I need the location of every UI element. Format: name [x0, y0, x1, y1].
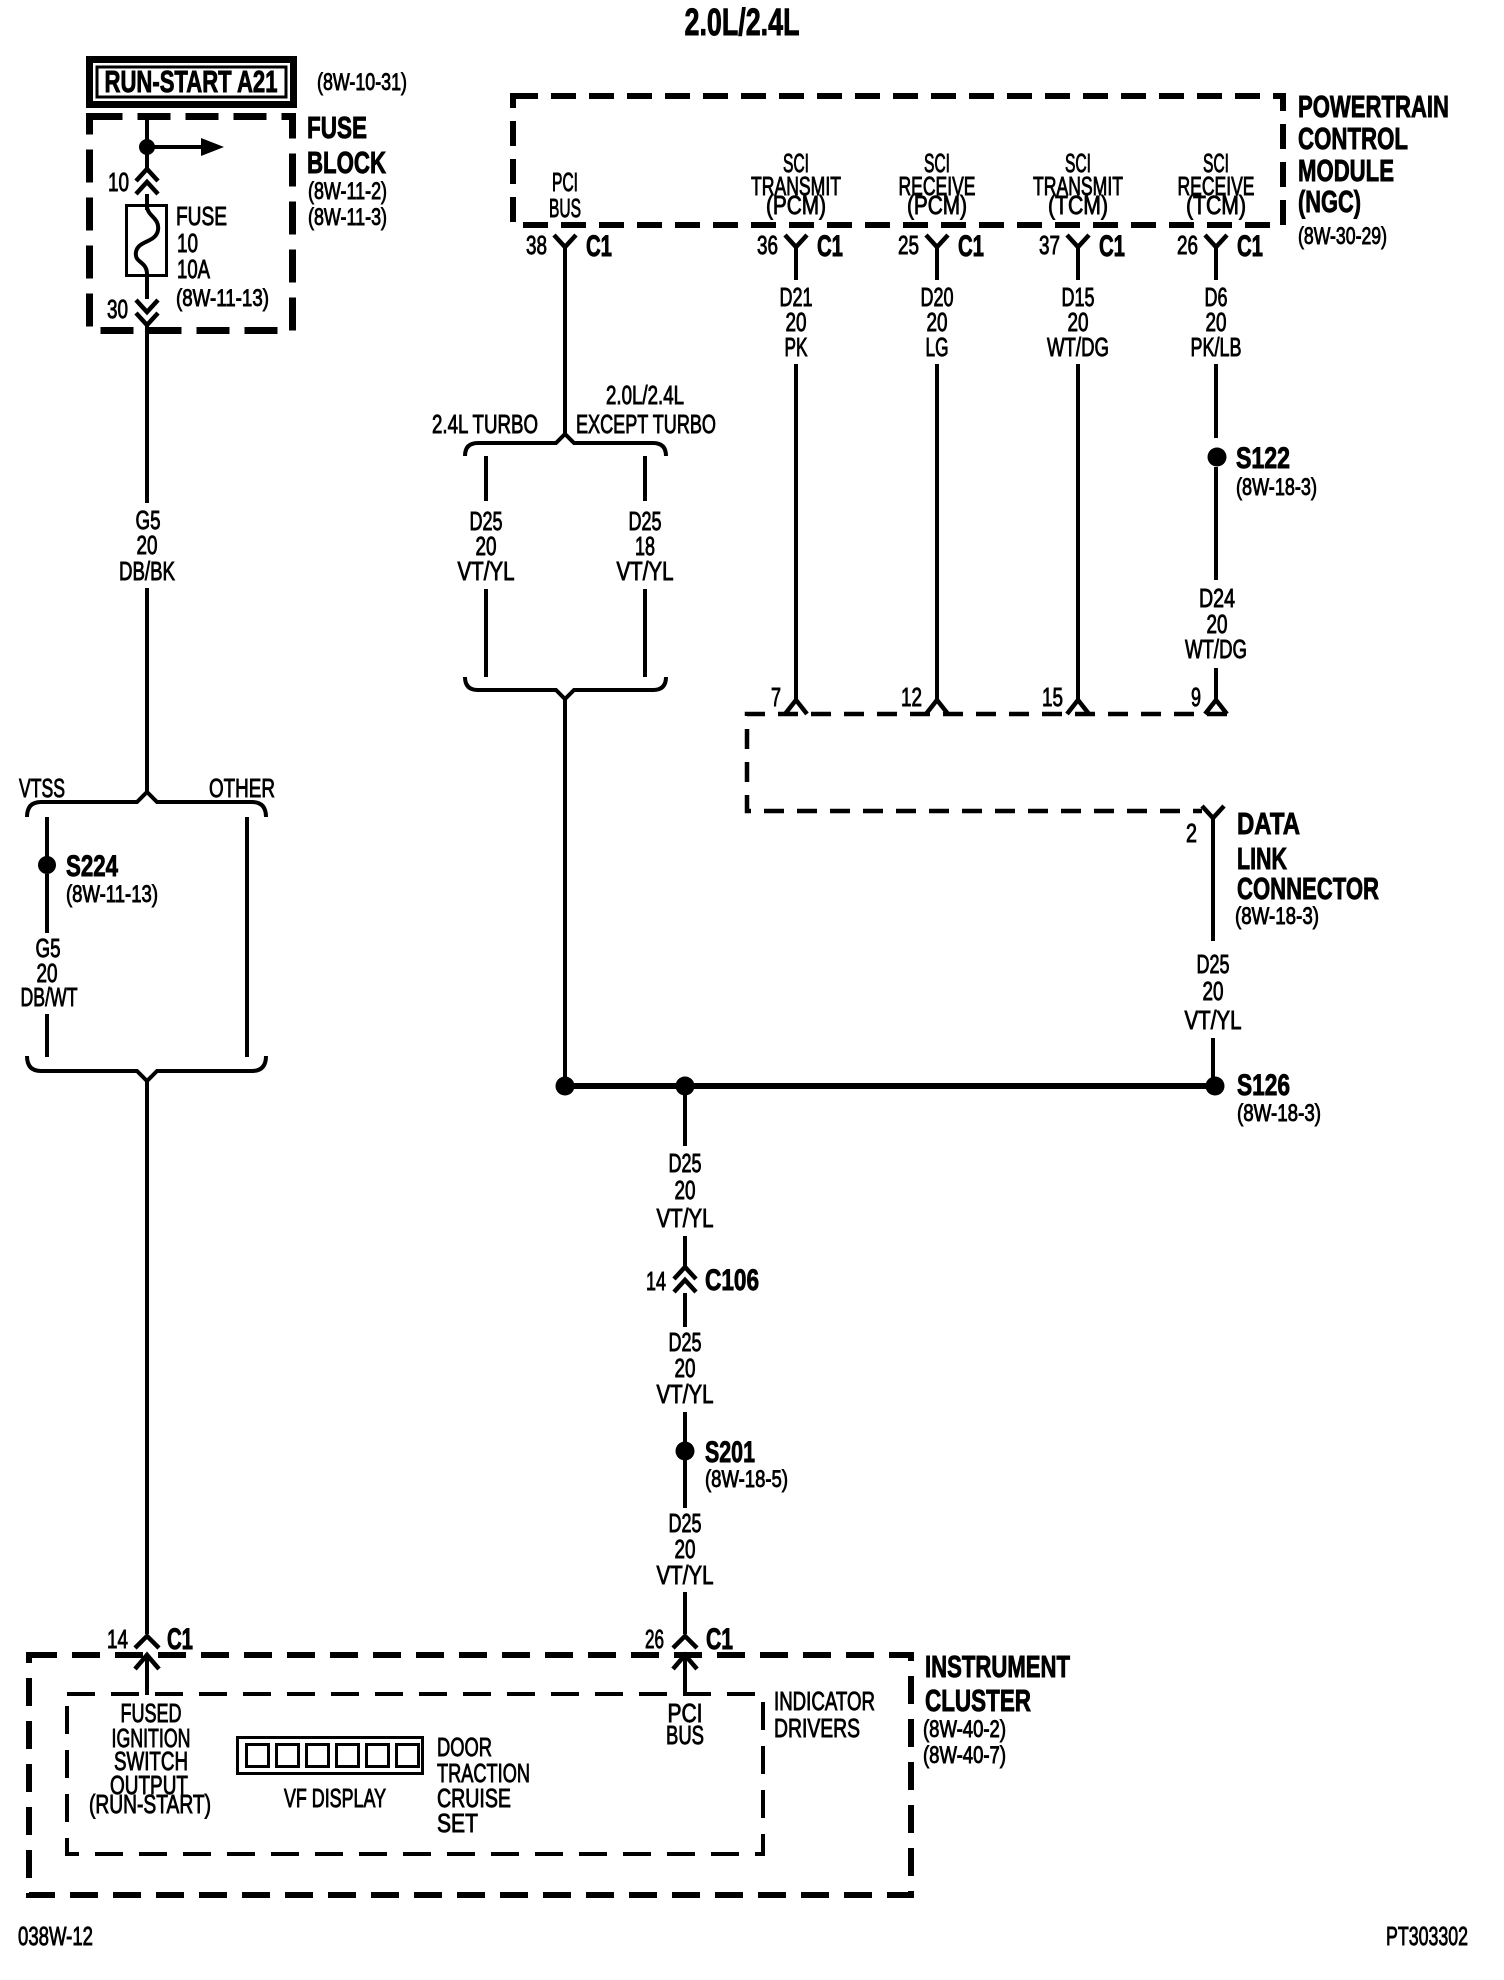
- wire OTHER branch: [245, 817, 249, 1057]
- svg-text:(8W-18-3): (8W-18-3): [1237, 1100, 1321, 1127]
- PCM pin 38 C1 connector: [526, 230, 612, 263]
- svg-text:C1: C1: [1237, 230, 1263, 263]
- splice S201: [676, 1442, 695, 1461]
- PCM pin 25 C1 connector: [898, 230, 984, 263]
- svg-text:DRIVERS: DRIVERS: [774, 1713, 860, 1743]
- svg-text:038W-12: 038W-12: [18, 1921, 93, 1951]
- split brace bottom: [27, 1056, 266, 1081]
- svg-text:VTSS: VTSS: [19, 773, 65, 803]
- connector chevrons pin 30: [136, 276, 158, 325]
- wire D25 from DLC pin 2: [1211, 818, 1215, 941]
- svg-text:EXCEPT TURBO: EXCEPT TURBO: [576, 409, 716, 439]
- wire 2.4L turbo branch: [484, 456, 488, 501]
- svg-text:(8W-11-2): (8W-11-2): [308, 178, 387, 205]
- svg-text:12: 12: [901, 682, 922, 712]
- wire D21 lower: [794, 364, 798, 700]
- wire D25 from bus: [683, 1095, 687, 1146]
- wire label G5 20 DB/WT: [21, 933, 78, 1012]
- svg-text:S224: S224: [66, 850, 118, 883]
- svg-text:BUS: BUS: [666, 1720, 704, 1750]
- fuse value labels: [176, 201, 269, 312]
- DLC pin 7 connector: [771, 682, 807, 714]
- PCM output SCI RECEIVE (PCM): [899, 148, 976, 220]
- splice S201 labels: [705, 1436, 788, 1493]
- splice S122: [1208, 448, 1227, 467]
- svg-text:(8W-11-13): (8W-11-13): [176, 285, 269, 312]
- svg-text:MODULE: MODULE: [1298, 153, 1394, 188]
- svg-text:(8W-40-2): (8W-40-2): [923, 1716, 1006, 1743]
- wire label D25 20 VT/YL lower: [657, 1508, 714, 1590]
- DLC pin 15 connector: [1042, 682, 1089, 714]
- wire label D25 20 VT/YL middle: [657, 1327, 714, 1409]
- wire PCI BUS from pin 38: [563, 247, 567, 434]
- svg-text:10: 10: [108, 167, 129, 197]
- svg-text:(8W-18-3): (8W-18-3): [1235, 903, 1319, 930]
- svg-text:LG: LG: [926, 332, 949, 362]
- fuse block dashed outline: [90, 117, 293, 331]
- wire turbo branch lower: [484, 589, 488, 677]
- wire D24 lower: [1214, 668, 1218, 700]
- svg-text:7: 7: [771, 682, 781, 712]
- bus junction node left: [556, 1077, 575, 1096]
- wire continues to split: [145, 588, 149, 794]
- wire label D20 20 LG: [921, 282, 954, 362]
- svg-text:VT/YL: VT/YL: [617, 556, 674, 586]
- engine split brace top: [465, 434, 666, 456]
- PCM pin 37 C1 connector: [1039, 230, 1125, 263]
- wire to instrument cluster pin 26: [683, 1592, 687, 1634]
- svg-text:D25: D25: [1197, 949, 1230, 979]
- splice S126 labels: [1237, 1069, 1321, 1127]
- dashed link wire to data link connector: [747, 714, 1227, 811]
- wire D21 20 PK upper: [794, 247, 798, 280]
- indicator drivers label: [774, 1686, 875, 1743]
- svg-text:PK/LB: PK/LB: [1191, 332, 1242, 362]
- wire label D21 20 PK: [780, 282, 813, 362]
- splice S122 labels: [1236, 442, 1317, 501]
- wire label D24 20 WT/DG: [1185, 583, 1247, 664]
- connector C106 chevrons: [674, 1267, 696, 1292]
- wire label D25 20 VT/YL turbo: [458, 506, 515, 586]
- PCM pin 36 C1 connector: [757, 230, 843, 263]
- svg-text:30: 30: [107, 294, 128, 324]
- svg-text:37: 37: [1039, 230, 1060, 260]
- svg-text:9: 9: [1191, 682, 1201, 712]
- svg-text:DATA: DATA: [1237, 806, 1300, 841]
- svg-text:(8W-11-3): (8W-11-3): [308, 204, 387, 231]
- svg-text:(PCM): (PCM): [907, 190, 967, 220]
- svg-text:(8W-10-31): (8W-10-31): [317, 69, 407, 96]
- svg-text:15: 15: [1042, 682, 1063, 712]
- svg-text:DB/WT: DB/WT: [21, 982, 78, 1012]
- wire D6 20 PK/LB upper: [1214, 247, 1218, 280]
- wire to connector C106: [683, 1236, 687, 1267]
- cluster pin 14 arrow into module: [135, 1655, 159, 1695]
- wire to instrument cluster pin 14: [145, 1081, 149, 1634]
- svg-text:D25: D25: [669, 1148, 702, 1178]
- wire VTSS branch lower: [45, 1014, 49, 1057]
- svg-text:C106: C106: [705, 1264, 759, 1297]
- splice S224: [38, 856, 56, 874]
- branch label 2.0L/2.4L EXCEPT TURBO: [576, 380, 716, 439]
- svg-text:20: 20: [675, 1175, 696, 1205]
- svg-text:OTHER: OTHER: [209, 773, 275, 803]
- VF display: [238, 1738, 423, 1774]
- svg-text:CONNECTOR: CONNECTOR: [1237, 871, 1379, 906]
- svg-text:2.0L/2.4L: 2.0L/2.4L: [606, 380, 684, 410]
- svg-text:C1: C1: [586, 230, 612, 263]
- svg-text:C1: C1: [706, 1623, 733, 1656]
- svg-text:10A: 10A: [177, 254, 210, 284]
- fused ignition switch output labels: [89, 1698, 211, 1819]
- svg-text:S126: S126: [1237, 1069, 1290, 1102]
- svg-text:PK: PK: [785, 332, 808, 362]
- instrument cluster inner dashed box: [67, 1694, 763, 1854]
- wire below S201: [683, 1460, 687, 1508]
- svg-text:VT/YL: VT/YL: [657, 1203, 714, 1233]
- wire to splice S201: [683, 1412, 687, 1443]
- svg-text:S122: S122: [1236, 442, 1290, 475]
- wire D15 20 WT/DG upper: [1076, 247, 1080, 280]
- svg-text:POWERTRAIN: POWERTRAIN: [1298, 89, 1449, 124]
- arrow tap to other circuits: [147, 138, 224, 156]
- data link connector labels: [1235, 806, 1379, 930]
- splice S126: [1206, 1077, 1225, 1096]
- svg-text:CONTROL: CONTROL: [1298, 121, 1408, 156]
- svg-text:20: 20: [1203, 976, 1224, 1006]
- wire label G5 20 DB/BK: [119, 505, 175, 586]
- door traction cruise set labels: [437, 1732, 530, 1838]
- svg-text:2.4L TURBO: 2.4L TURBO: [432, 409, 538, 439]
- wire D15 lower: [1076, 364, 1080, 700]
- svg-text:DB/BK: DB/BK: [119, 556, 175, 586]
- svg-text:(PCM): (PCM): [766, 190, 826, 220]
- PCM output SCI RECEIVE (TCM): [1178, 148, 1255, 220]
- svg-text:2.0L/2.4L: 2.0L/2.4L: [685, 2, 800, 44]
- svg-text:(NGC): (NGC): [1298, 184, 1361, 219]
- svg-text:26: 26: [1177, 230, 1198, 260]
- DLC pin 9 connector: [1191, 682, 1227, 714]
- PCM pin 26 C1 connector: [1177, 230, 1263, 263]
- wire label D25 20 VT/YL DLC: [1185, 949, 1242, 1035]
- power feed label RUN-START A21: [90, 60, 294, 105]
- bus junction node middle: [676, 1077, 695, 1096]
- PCI bus line: [565, 1083, 1215, 1089]
- svg-text:C1: C1: [1099, 230, 1125, 263]
- svg-text:14: 14: [107, 1624, 128, 1654]
- splice S224 labels: [66, 850, 158, 908]
- cluster pin 26 C1 connector: [645, 1623, 733, 1656]
- junction node in fuse block: [139, 139, 155, 155]
- fuse block header text: [307, 110, 387, 231]
- svg-text:2: 2: [1186, 818, 1197, 848]
- svg-text:(8W-11-13): (8W-11-13): [66, 881, 158, 908]
- svg-text:FUSE: FUSE: [307, 110, 367, 145]
- wire label D15 20 WT/DG: [1047, 282, 1109, 362]
- wire to splice S126: [1211, 1038, 1215, 1078]
- svg-text:BUS: BUS: [549, 193, 581, 223]
- svg-text:(8W-18-3): (8W-18-3): [1236, 474, 1317, 501]
- svg-text:INDICATOR: INDICATOR: [774, 1686, 875, 1716]
- wire below C106: [683, 1293, 687, 1327]
- svg-text:C1: C1: [958, 230, 984, 263]
- svg-text:25: 25: [898, 230, 919, 260]
- svg-text:(TCM): (TCM): [1048, 190, 1108, 220]
- svg-text:CLUSTER: CLUSTER: [925, 1683, 1031, 1718]
- connector chevrons pin 10: [136, 169, 158, 194]
- svg-text:VT/YL: VT/YL: [1185, 1005, 1242, 1035]
- svg-text:(8W-30-29): (8W-30-29): [1298, 223, 1387, 250]
- svg-text:(TCM): (TCM): [1186, 190, 1246, 220]
- cluster pin 14 C1 connector: [107, 1623, 193, 1656]
- powertrain control module dashed outline: [513, 96, 1283, 225]
- wire label D25 20 VT/YL upper: [657, 1148, 714, 1233]
- fuse F10 symbol: [127, 194, 167, 276]
- svg-text:C1: C1: [817, 230, 843, 263]
- DLC pin 2 connector: [1186, 806, 1224, 848]
- split brace top: [27, 792, 266, 817]
- svg-text:VT/YL: VT/YL: [657, 1379, 714, 1409]
- svg-text:S201: S201: [705, 1436, 755, 1469]
- PCM output PCI BUS: [549, 167, 581, 223]
- svg-text:PT303302: PT303302: [1386, 1921, 1468, 1951]
- wire D20 lower: [935, 364, 939, 700]
- svg-text:14: 14: [646, 1266, 666, 1296]
- svg-text:(8W-40-7): (8W-40-7): [923, 1742, 1006, 1769]
- wire label D6 20 PK/LB: [1191, 282, 1242, 362]
- wire D20 20 LG upper: [935, 247, 939, 280]
- svg-text:WT/DG: WT/DG: [1047, 332, 1109, 362]
- svg-text:(8W-18-5): (8W-18-5): [705, 1466, 788, 1493]
- wire except-turbo branch: [643, 456, 647, 501]
- svg-text:26: 26: [645, 1624, 664, 1654]
- DLC pin 12 connector: [901, 682, 948, 714]
- PCM header text: [1298, 89, 1449, 250]
- wire D24 upper: [1214, 467, 1218, 580]
- wire D6 to splice S122: [1214, 364, 1218, 438]
- svg-text:VF DISPLAY: VF DISPLAY: [284, 1783, 386, 1813]
- svg-text:WT/DG: WT/DG: [1185, 634, 1247, 664]
- svg-text:BLOCK: BLOCK: [307, 145, 386, 180]
- wire label D25 18 VT/YL except turbo: [617, 506, 674, 586]
- svg-text:INSTRUMENT: INSTRUMENT: [925, 1649, 1070, 1684]
- wire G5 20 DB/WT: [45, 874, 49, 933]
- instrument cluster header text: [923, 1649, 1070, 1769]
- cluster pin 26 arrow into module: [673, 1655, 697, 1695]
- svg-text:SET: SET: [437, 1808, 478, 1838]
- PCM output SCI TRANSMIT (TCM): [1033, 148, 1123, 220]
- svg-text:FUSE: FUSE: [176, 201, 227, 231]
- wire VTSS branch: [45, 817, 49, 857]
- connector C106 labels: [646, 1264, 759, 1297]
- svg-text:VT/YL: VT/YL: [657, 1560, 714, 1590]
- cluster PCI BUS label: [666, 1698, 704, 1750]
- engine split brace bottom: [465, 677, 666, 699]
- wire PCI bus to splice: [563, 699, 567, 1079]
- wire except-turbo branch lower: [643, 589, 647, 677]
- svg-text:C1: C1: [167, 1623, 193, 1656]
- svg-text:(RUN-START): (RUN-START): [89, 1789, 211, 1819]
- svg-text:VT/YL: VT/YL: [458, 556, 515, 586]
- svg-text:36: 36: [757, 230, 778, 260]
- svg-text:38: 38: [526, 230, 547, 260]
- svg-text:RUN-START A21: RUN-START A21: [105, 64, 278, 99]
- PCM output SCI TRANSMIT (PCM): [751, 148, 841, 220]
- instrument cluster dashed outline: [29, 1655, 911, 1895]
- wire from RUN-START into fuse block: [145, 113, 149, 168]
- wire G5 20 DB/BK: [145, 325, 149, 503]
